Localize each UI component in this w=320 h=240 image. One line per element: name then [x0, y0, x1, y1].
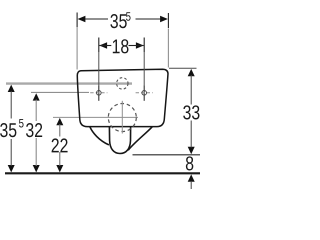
outlet vertical centreline — [121, 101, 123, 134]
bowl outer arc left — [90, 126, 109, 145]
height dimension 22 — [52, 118, 68, 172]
bowl outer arc right — [128, 127, 152, 151]
top width dimension 35.5 — [77, 12, 168, 69]
32 extension line — [31, 91, 89, 93]
hole spacing dimension 18 — [99, 38, 144, 86]
22 extension / outlet horizontal centreline — [53, 116, 138, 118]
height dimension 32 — [26, 93, 42, 172]
left mounting hole cross — [90, 85, 107, 101]
inlet dashed circle — [117, 78, 128, 89]
outlet dashed circle — [108, 104, 136, 132]
trap U — [109, 127, 130, 154]
height dimension 35.5 — [0, 85, 23, 173]
right mounting hole cross — [136, 85, 153, 101]
outlet bottom reference line — [133, 154, 201, 156]
water supply centre line — [6, 82, 132, 84]
height dimension 33 — [183, 69, 199, 154]
floor line — [5, 172, 200, 174]
33 top extension line — [169, 67, 197, 69]
height dimension 8 — [186, 156, 195, 189]
WC body outline — [77, 69, 168, 126]
